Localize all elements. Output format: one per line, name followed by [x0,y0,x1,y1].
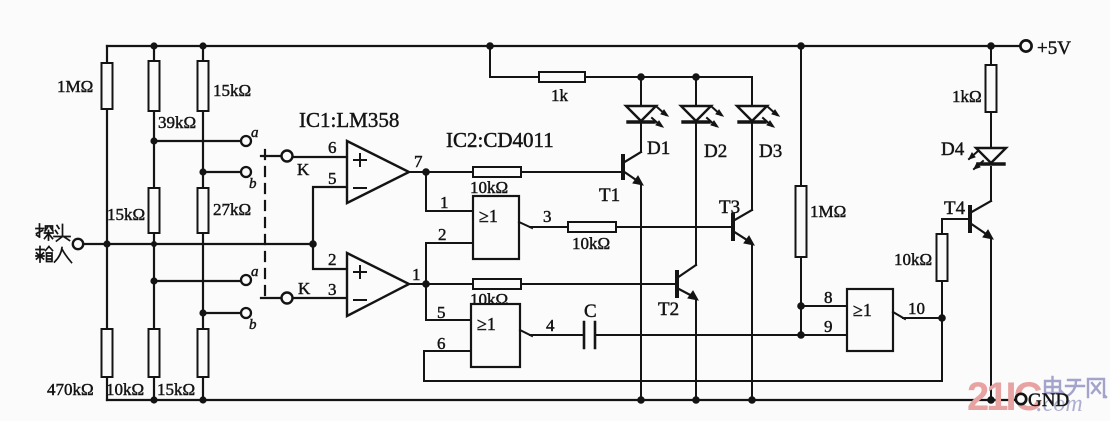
wire column3 R 15k bottom to bottom rail [202,377,204,400]
svg-text:39kΩ: 39kΩ [158,113,196,132]
wire capacitor to 1M node [595,334,801,336]
wire column1 R 470k to bottom rail [106,377,108,400]
op-amp U1A plus sign [354,154,366,166]
wire D3 cathode to T3 collector [751,121,753,210]
transistor T2 [677,265,698,300]
junction dot rail 1k branch [486,42,494,50]
svg-text:5: 5 [328,169,337,188]
svg-text:6: 6 [328,138,337,157]
terminal a upper [241,136,251,146]
wire column3 R 15k top to node b1 [202,111,204,172]
op-amp U1A minus sign [354,187,366,189]
gate IC2a output stub [519,222,568,228]
svg-text:a: a [251,125,259,141]
svg-text:4: 4 [546,316,555,335]
label probe input (shu ru) drawn strokes [36,247,72,263]
resistor 1k right vertical [986,65,997,112]
svg-text:T3: T3 [719,197,740,218]
svg-text:T2: T2 [658,299,679,320]
wire gate3 out up to R 10k d [941,281,943,318]
junction dot input-column2 [151,241,157,247]
junction dot gate3 pin9 node [797,331,805,339]
svg-text:b: b [249,317,257,333]
junction dot op1 output [422,168,430,176]
svg-text:K: K [298,279,311,298]
svg-text:7: 7 [414,152,423,171]
svg-text:1MΩ: 1MΩ [810,202,846,221]
resistor 1k horizontal [539,72,585,82]
resistor 15k mid [149,188,160,233]
capacitor C plates [584,322,595,348]
junction dot rail-column3 [199,42,206,49]
wire node b2 to terminal b lower [203,312,241,314]
wire D1 cathode to T1 collector [640,121,642,152]
junction dot rail 1k right branch [987,42,995,50]
wire gate3 pin9 [801,334,847,336]
LED D4 [969,148,1006,169]
svg-text:10kΩ: 10kΩ [572,234,610,253]
wire op2 output to node [409,283,426,285]
resistor 10k d vertical [937,234,948,281]
wire R 1k right to D4 anode [990,112,992,148]
op-amp U1A triangle [347,141,409,203]
op-amp U1B plus sign [354,266,366,278]
junction dot op2 output [422,280,430,288]
svg-text:8: 8 [824,288,833,307]
junction dot T3 emitter rail [748,396,756,404]
wire R 1M to gate3 inputs [800,257,802,335]
svg-text:2: 2 [328,250,337,269]
wire switch K1 arm stub [261,155,282,157]
resistor 10k horizontal a [473,167,521,177]
wire op2 out node to R 10k c [426,283,473,285]
svg-text:1kΩ: 1kΩ [952,87,982,106]
svg-text:10kΩ: 10kΩ [470,178,508,197]
svg-text:1MΩ: 1MΩ [57,77,93,96]
resistor 15k bottom [198,329,209,377]
svg-text:27kΩ: 27kΩ [213,200,251,219]
svg-text:1: 1 [440,193,449,212]
svg-text:IC2:CD4011: IC2:CD4011 [446,128,554,152]
wire T4 emitter to bottom rail [990,238,992,400]
wire R 1k to LED anodes [585,77,752,106]
wire switch K2 pole to op-amp pin3 [292,297,347,299]
transistor T3 [733,210,754,245]
LED D1 [626,106,668,127]
svg-text:D1: D1 [647,138,670,159]
wire rail to R 1k right [990,46,992,65]
terminal b lower [241,308,251,318]
gate IC2b output stub [520,330,584,336]
wire main input horizontal [83,243,313,245]
wire column1 R 1M to input wire [106,109,108,244]
junction dot bottom rail col2 [150,396,157,403]
svg-text:a: a [251,264,259,280]
wire node a2 to terminal a lower [154,280,241,282]
wire op1 out down to gate1 pin1 [426,172,473,211]
wire T4 collector up to D4 [990,167,992,201]
wire D2 cathode to T2 collector [695,121,697,265]
svg-text:C: C [584,301,597,322]
resistor 1M mid [796,186,807,257]
junction dot gate3 pin8 node [797,302,805,310]
junction dot node b1 [199,168,206,175]
svg-text:K: K [297,160,310,179]
resistor 10k horizontal b gate1 out [568,222,616,232]
gate IC2a box [473,196,519,259]
junction dot T2 emitter rail [692,396,700,404]
svg-text:T4: T4 [944,198,966,219]
junction dot T4 emitter rail [987,396,995,404]
terminal input circle [73,239,83,249]
svg-text:3: 3 [328,280,337,299]
svg-text:10kΩ: 10kΩ [106,380,144,399]
junction dot D1 anode [637,73,645,81]
LED D2 [681,106,723,127]
wire R10k a to T1 base [521,171,621,173]
gate IC2b box [471,304,520,367]
wire T3 emitter to bottom rail [751,244,753,400]
svg-text:9: 9 [824,317,833,336]
switch K2 pole circle [282,293,293,304]
LED D3 [737,106,779,127]
wire column2 input wire to node a2 [153,244,155,281]
terminal GND circle [1016,394,1026,404]
svg-text:GND: GND [1028,390,1069,411]
wire op1 output to node [409,171,426,173]
wire column2 R 10k to bottom rail [153,377,155,400]
resistor 27k [198,188,209,233]
svg-text:≥1: ≥1 [479,206,498,226]
junction dot gate3 output [938,314,946,322]
wire column3 rail to R 15k top [202,46,204,61]
wire column2 node a2 to R 10k [153,281,155,329]
wire gate1 pin2 to op2 out node [426,243,473,284]
op-amp U1B triangle [347,253,409,316]
svg-text:1k: 1k [551,86,569,105]
svg-text:5: 5 [437,303,446,322]
wire D1 anode drop [640,77,642,106]
svg-text:470kΩ: 470kΩ [47,380,94,399]
wire column3 R 27k through input wire to node b2 [202,233,204,313]
svg-text:10kΩ: 10kΩ [894,250,932,269]
wire column2 R 15k mid to input wire [153,233,155,244]
terminal +5V circle [1020,40,1031,51]
wire bottom GND rail [107,399,1016,401]
junction dot T1 emitter rail [637,396,645,404]
svg-text:1: 1 [412,265,421,284]
wire rail to R 1M mid [800,46,802,186]
wire gate2 pin5 to op2 out node [426,284,471,320]
wire T1 emitter to bottom rail [640,184,642,400]
svg-text:IC1:LM358: IC1:LM358 [299,108,399,132]
wire node a1 to terminal a upper [154,140,241,142]
watermark dian zi wang drawn strokes [1045,377,1106,397]
junction dot node a1 [150,137,157,144]
wire R10k b to T3 base [616,226,731,228]
wire op1 out node to R 10k a [426,171,473,173]
resistor 470k [102,329,113,377]
wire switch K2 arm stub [261,297,282,299]
terminal a lower [241,275,251,285]
junction dot rail 1M branch [797,42,805,50]
svg-text:2: 2 [438,225,447,244]
resistor 15k top [198,61,209,111]
wire R10k c to T2 base [521,283,675,285]
wire top +5V rail [107,45,1020,47]
resistor 1M top-left [102,63,113,109]
wire column2 R 39k to node a1 [153,111,155,141]
junction dot bottom rail col3 [199,396,206,403]
wire switch K1 pole to op-amp pin6 [292,156,347,158]
wire node b1 to terminal b upper [203,171,241,173]
wire column3 node b1 to R 27k [202,172,204,188]
wire gate3 pin8 [801,305,847,307]
svg-text:≥1: ≥1 [477,314,496,334]
svg-text:3: 3 [543,207,552,226]
junction dot D2 anode [692,73,700,81]
wire op1 pin5 to input node bracket [313,187,347,269]
wire T2 emitter to bottom rail [695,299,697,400]
wire column3 node b2 to R 15k bottom [202,313,204,329]
wire gate2 pin6 feedback to gate3 output [424,318,942,381]
junction dot node b2 [199,309,206,316]
wire column1 rail to R 1M [106,46,108,63]
op-amp U1B minus sign [354,299,366,301]
junction dot input-bracket [309,240,317,248]
svg-text:b: b [249,176,257,192]
gate IC2c output stub [893,312,942,319]
junction dot input-column1 [103,240,110,247]
junction dot node a2 [150,277,157,284]
gate IC2c box [847,289,893,351]
svg-text:D3: D3 [759,141,782,162]
svg-text:≥1: ≥1 [853,300,872,320]
resistor 39k [149,61,160,111]
terminal b upper [241,167,251,177]
svg-text:+5V: +5V [1037,38,1071,59]
resistor 10k bottom-left [149,329,160,377]
svg-text:15kΩ: 15kΩ [213,81,251,100]
resistor 10k horizontal c [473,279,521,289]
wire column2 node a1 to R 15k mid [153,141,155,188]
wire column1 input wire to R 470k [106,244,108,329]
wire D2 anode drop [695,77,697,106]
dashed switch coupling line [264,150,266,297]
transistor T1 [623,152,643,185]
wire rail down to R 1k [490,46,539,77]
label probe input (tan tou) drawn strokes [36,224,70,241]
switch K1 pole circle [282,151,293,162]
junction dot rail-column2 [150,42,157,49]
wire column2 rail to R 39k [153,46,155,61]
svg-text:10: 10 [908,299,925,318]
wire R 10k d to T4 base [942,219,968,234]
svg-text:6: 6 [437,334,446,353]
svg-text:15kΩ: 15kΩ [107,205,145,224]
svg-text:D4: D4 [941,139,965,160]
svg-text:D2: D2 [704,141,727,162]
svg-text:15kΩ: 15kΩ [157,380,195,399]
svg-text:T1: T1 [599,185,620,206]
transistor T4 [970,201,993,239]
